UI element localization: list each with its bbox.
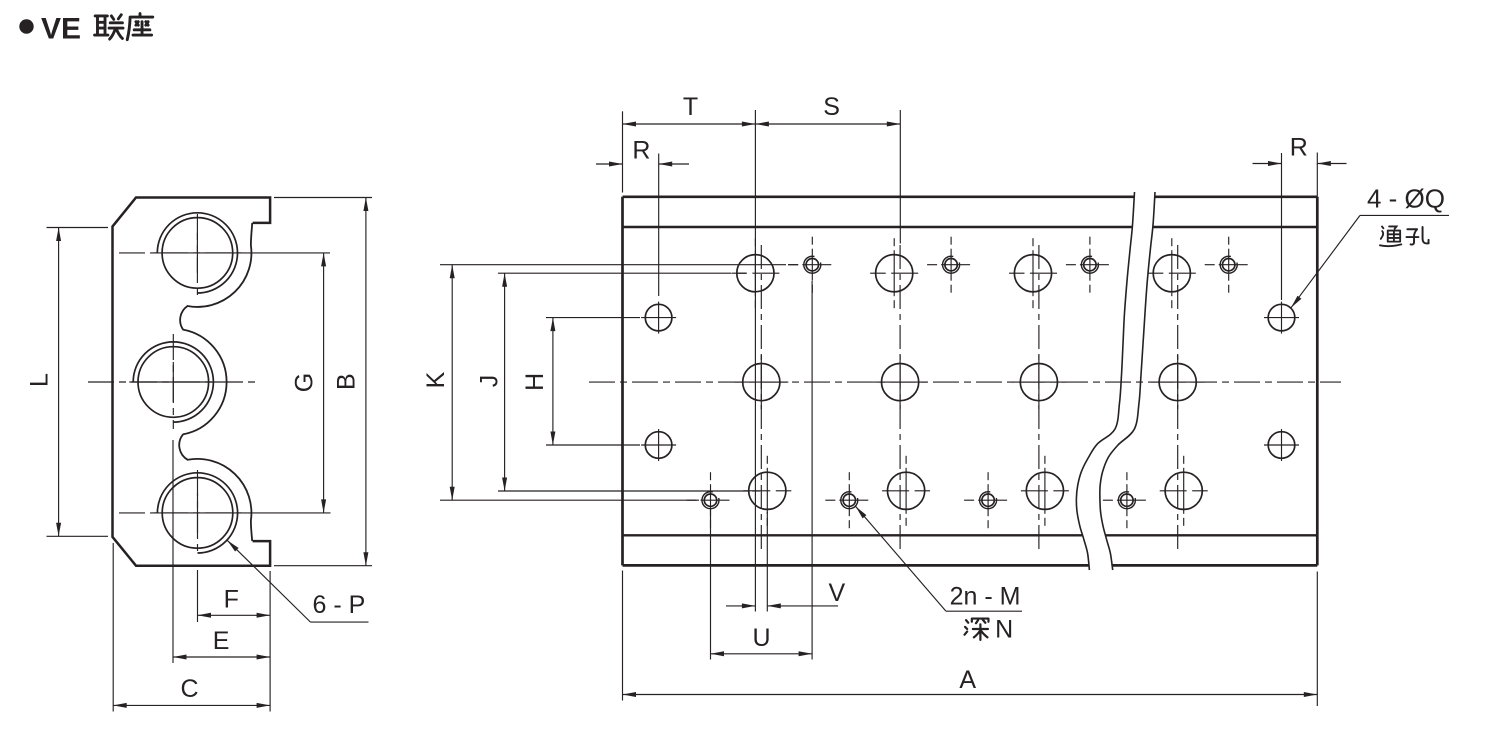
svg-text:2n - M: 2n - M (950, 583, 1021, 611)
svg-text:B: B (333, 373, 361, 390)
svg-text:C: C (180, 675, 198, 703)
svg-text:J: J (476, 375, 504, 388)
svg-text:6 - P: 6 - P (313, 591, 366, 619)
svg-text:K: K (422, 371, 450, 388)
svg-text:T: T (683, 93, 698, 121)
svg-text:E: E (213, 627, 230, 655)
svg-text:H: H (521, 373, 549, 391)
svg-text:R: R (1290, 134, 1308, 162)
svg-text:V: V (828, 579, 845, 607)
svg-text:S: S (823, 93, 840, 121)
svg-text:4 - ØQ: 4 - ØQ (1367, 184, 1445, 214)
svg-text:A: A (959, 666, 976, 694)
svg-text:F: F (224, 586, 239, 614)
svg-text:R: R (632, 137, 650, 165)
svg-text:VE: VE (41, 13, 81, 46)
svg-text:L: L (26, 373, 54, 387)
svg-text:G: G (291, 373, 319, 392)
svg-text:N: N (995, 616, 1013, 644)
svg-text:U: U (752, 624, 770, 652)
